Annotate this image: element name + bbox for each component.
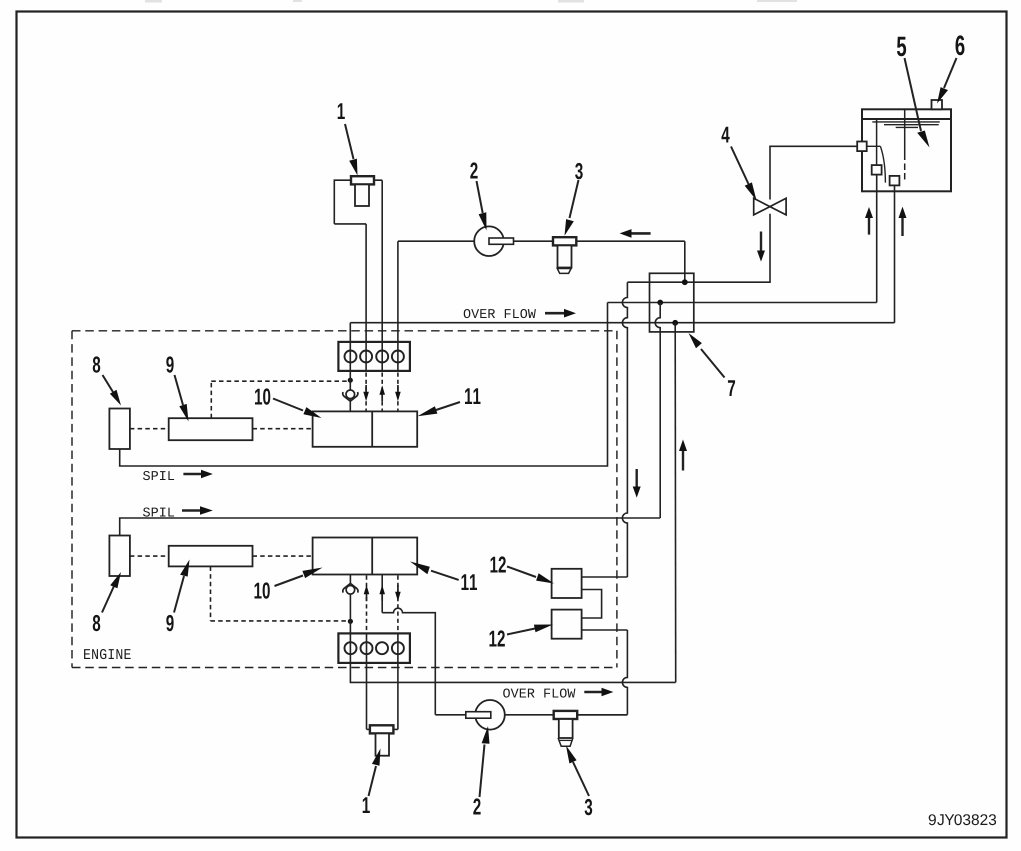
leader arrow 3 bottom (566, 746, 589, 797)
fuel injector 1 (top) outer body (334, 180, 382, 224)
wire: spill return down to y=302 (876, 175, 878, 303)
9JY03823 doc number (929, 814, 996, 825)
fuel rail 1 (upper) (338, 342, 410, 371)
wire: rail2 pipes down to injector 2 (366, 633, 368, 729)
injection pump assembly 10/11 upper (313, 411, 418, 446)
dashed link 8-9 upper (130, 428, 169, 430)
wire: loop 12a-12b (582, 590, 602, 619)
callout number 11 lower (461, 574, 477, 590)
wire: SPIL line 1 (120, 303, 608, 467)
flow arrow left (return to pump) (620, 229, 651, 238)
flow arrow OVER FLOW upper (545, 309, 576, 318)
leader arrow 12 upper (507, 567, 554, 584)
node: check valve junction lower (348, 619, 353, 624)
leader arrow 4 (731, 147, 757, 201)
tank fitting (spill return) (872, 165, 882, 175)
leader arrow 2 bottom (480, 726, 490, 797)
dashed link 9 to check valve node upper (211, 381, 347, 418)
flow arrow down on x=398 (395, 385, 401, 401)
leader arrow 6 (937, 58, 957, 104)
callout number 10 lower (254, 582, 269, 598)
wire: spill riser x=660.3 with hop (655, 303, 660, 519)
rail 1 ports (345, 351, 404, 363)
callout number 1 top (338, 103, 345, 119)
fuel filter / bleeder 3 (bottom) (554, 711, 578, 746)
callout number 12 upper (490, 556, 505, 572)
tank fuel level marks (872, 122, 940, 128)
callout number 8 upper (93, 356, 101, 372)
flow arrow down x=636.7 (633, 469, 641, 498)
wire: return to bleeder bottom (577, 714, 627, 716)
callout number 5 (897, 37, 906, 57)
node dot2 (657, 300, 663, 306)
callout number 3 bottom (585, 799, 593, 815)
wire: OVER FLOW 2 line (350, 663, 675, 683)
ENGINE label (84, 649, 131, 659)
callout number 9 lower (166, 615, 173, 631)
leader arrow 8 lower (102, 572, 121, 613)
fuel rail 2 (lower) (338, 633, 410, 663)
dashed link 8-9 lower (130, 555, 169, 557)
node dot3 (672, 320, 678, 326)
wire: pump2 feed horizontal with hop (382, 608, 435, 715)
check valve upper (343, 390, 358, 401)
leader arrow 10 upper (273, 399, 322, 419)
flow arrow up (to tank, left) (865, 207, 873, 235)
leader arrow 1 bottom (369, 749, 381, 797)
flow arrow up on x=366 lower (364, 585, 370, 601)
callout number 11 upper (465, 388, 481, 404)
wire y=282.2 dot1 to hose line (627, 281, 684, 283)
dashed link 9-pump lower (253, 555, 313, 557)
wire: valve 4 down to line y=282 (685, 214, 770, 282)
leader arrow 5 (905, 58, 930, 148)
wire: rail1 feed through check valve (349, 342, 351, 390)
tank suction pipe (904, 109, 906, 179)
priming pump 2 (bottom) (475, 700, 505, 730)
dashed link 9 to check valve node lower (211, 566, 348, 621)
leader arrow 9 upper (175, 375, 189, 422)
callout number 8 lower (93, 615, 101, 631)
callout number 7 (728, 380, 735, 396)
callout number 12 lower (489, 630, 504, 646)
fuel heater 12 upper box (552, 569, 582, 598)
scan smudges top (145, 0, 797, 3)
leader arrow 7 (689, 333, 725, 378)
SPIL text upper (143, 471, 174, 480)
rail 2 ports (345, 642, 404, 654)
component 8 lower (sensor) (109, 536, 129, 577)
flow arrow SPIL upper (183, 470, 212, 479)
flow arrow down on x=398 lower (395, 585, 401, 601)
component 9 lower (controller) (169, 546, 253, 567)
callout number 9 upper (166, 356, 173, 372)
flow arrow down beside valve line (757, 232, 765, 262)
injection pump assembly 10/11 lower (313, 538, 418, 575)
tank filler hose curve (867, 146, 886, 182)
wire: overflow pipe down to y=322.7 (894, 185, 896, 322)
dashed pump feeds upper (366, 373, 398, 411)
wire: corner down to junction dot1 (684, 241, 686, 282)
component 8 upper (sensor) (109, 409, 129, 450)
leader arrow 12 lower (507, 625, 553, 635)
node dot1 (682, 279, 688, 285)
wire: heater feed line x=627.4 with hops (622, 282, 627, 577)
flow arrow up on x=382 (379, 385, 385, 401)
OVER FLOW text upper (464, 309, 536, 318)
wire: pump2 line y=714.8 (435, 714, 627, 716)
callout number 4 (721, 127, 729, 143)
junction box 7 (650, 273, 694, 332)
ENGINE dashed box (72, 331, 617, 668)
wire: injector1 pipe A x=366 (365, 224, 367, 371)
fuel filter / bleeder 3 (top) (553, 237, 576, 273)
injector 1 cap (351, 176, 374, 184)
callout number 3 top (575, 163, 583, 179)
tank filler cap 6 (932, 100, 943, 109)
flow arrow up x=683 (679, 440, 687, 471)
wire: SPIL line 2 (120, 518, 661, 536)
callout number 1 bottom (363, 797, 370, 813)
tank fitting (overflow return) (890, 176, 900, 186)
wire y=322.7 overflow header (350, 322, 894, 324)
wire: spill pipe inside tank (876, 119, 878, 165)
SPIL text lower (143, 508, 174, 517)
priming pump 2 (top) (474, 226, 504, 256)
component 9 upper (controller) (169, 418, 253, 440)
leader arrow 2 top (477, 181, 487, 231)
flow arrow down on x=366 (363, 385, 369, 401)
leader arrow 11 upper (418, 402, 461, 416)
callout number 10 upper (255, 388, 270, 404)
check valve lower (343, 583, 358, 594)
fuel tank 5 (862, 109, 951, 191)
callout number 6 (956, 35, 965, 55)
leader arrow 11 lower (410, 562, 459, 580)
wire: OVER FLOW 1 corner into rail1 (349, 323, 351, 342)
flow arrow up on x=382 lower (379, 585, 385, 601)
wire: heater return x=627.4 lower with hop (622, 630, 627, 715)
wire: pump2 feed solid x=382 (381, 575, 383, 613)
wire: rail2 feed through check valve (349, 575, 351, 585)
wire: 12b return (582, 629, 628, 631)
wire: tank to valve 4 (770, 146, 858, 199)
tank fitting (inlet, left wall) (857, 142, 867, 152)
callout number 2 top (470, 162, 477, 178)
fuel heater 12 lower box (552, 610, 582, 639)
fuel injector 1 (bottom) cap (370, 725, 394, 733)
callout number 2 bottom (473, 798, 480, 814)
flow arrow OVER FLOW lower (584, 688, 613, 697)
dashed pump feeds lower (367, 576, 398, 632)
flow arrow up (to tank, right) (899, 207, 907, 236)
wire: overflow riser x=675.7 (674, 323, 677, 683)
shut-off valve 4 (754, 198, 786, 215)
leader arrow 9 lower (174, 560, 190, 613)
node: check valve junction upper (348, 378, 353, 383)
wire: pump return line y=241 (398, 240, 685, 242)
leader arrow 1 top (345, 124, 358, 176)
dashed link 9-pump upper (253, 428, 313, 430)
flow arrow SPIL lower (182, 506, 213, 515)
wire: heater feed to 12a (582, 576, 628, 578)
OVER FLOW text lower (503, 689, 575, 698)
wire: injector1 pipe B x=382 (381, 180, 383, 371)
leader arrow 3 top (565, 180, 579, 236)
wire y=302.5 spill header (608, 302, 877, 304)
injector 1 element (355, 184, 369, 206)
leader arrow 10 lower (275, 568, 323, 587)
injector bottom element (376, 733, 390, 755)
wire: pipe x=398 down to rail1 (397, 241, 399, 371)
leader arrow 8 upper (103, 375, 122, 406)
